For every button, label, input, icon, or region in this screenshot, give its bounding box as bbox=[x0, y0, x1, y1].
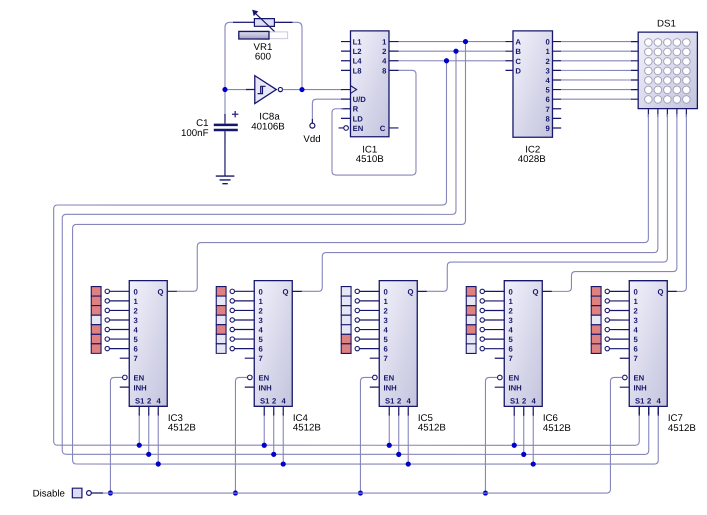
lead: DS1 row 6 stub bbox=[631, 98, 638, 100]
svg-text:0: 0 bbox=[133, 287, 137, 296]
svg-text:9: 9 bbox=[546, 124, 550, 133]
svg-text:7: 7 bbox=[508, 354, 512, 363]
variable resistor VR1 (pot with arrow and slider bar) bbox=[239, 10, 288, 39]
node: junction net B bbox=[453, 49, 458, 54]
svg-text:Q: Q bbox=[157, 287, 163, 296]
wire: IC4.Q to DS1 column 2 bbox=[301, 114, 658, 291]
svg-text:5: 5 bbox=[383, 335, 388, 344]
svg-text:INH: INH bbox=[633, 383, 647, 392]
svg-text:EN: EN bbox=[258, 374, 269, 383]
svg-text:EN: EN bbox=[508, 374, 519, 383]
svg-text:5: 5 bbox=[133, 335, 138, 344]
lead: DS1 row 4 stub bbox=[631, 79, 638, 81]
svg-text:4: 4 bbox=[633, 326, 638, 335]
svg-text:2: 2 bbox=[522, 396, 526, 405]
node: IC6 EN junction bbox=[483, 490, 488, 495]
svg-text:3: 3 bbox=[383, 316, 387, 325]
svg-text:7: 7 bbox=[546, 105, 550, 114]
wire: IC6.EN to disable net bbox=[485, 377, 497, 493]
svg-text:Q: Q bbox=[532, 287, 538, 296]
svg-text:4: 4 bbox=[383, 326, 388, 335]
multiplexer IC4 4512B bbox=[230, 281, 302, 416]
svg-text:S1: S1 bbox=[135, 396, 145, 405]
multiplexer IC7 4512B bbox=[605, 281, 677, 416]
wire: net B to S2 bus bbox=[62, 51, 649, 454]
wire: node to schmitt trigger input bbox=[225, 89, 249, 91]
node: schmitt input junction bbox=[222, 87, 227, 92]
svg-text:5: 5 bbox=[633, 335, 638, 344]
svg-text:2: 2 bbox=[258, 306, 262, 315]
multiplexer IC3 4512B bbox=[105, 281, 177, 416]
switch: Disable input bbox=[72, 488, 82, 498]
svg-text:INH: INH bbox=[383, 383, 397, 392]
svg-text:2: 2 bbox=[508, 306, 512, 315]
svg-text:2: 2 bbox=[383, 306, 387, 315]
svg-text:U/D: U/D bbox=[353, 95, 367, 104]
svg-text:6: 6 bbox=[508, 345, 512, 354]
svg-text:100nF: 100nF bbox=[181, 128, 209, 139]
svg-text:DS1: DS1 bbox=[657, 18, 676, 29]
wire: IC2.5 to DS1 row 5 bbox=[561, 89, 632, 91]
svg-text:6: 6 bbox=[546, 95, 550, 104]
svg-text:EN: EN bbox=[383, 374, 394, 383]
wire: IC5.S1 to select bus bbox=[388, 414, 390, 445]
svg-text:2: 2 bbox=[546, 57, 550, 66]
svg-text:4: 4 bbox=[156, 396, 161, 405]
node: junction net A bbox=[463, 39, 468, 44]
lead: IC7 S2 stub bbox=[648, 406, 650, 414]
logic level switches for IC3 inputs bbox=[91, 287, 101, 354]
svg-text:LD: LD bbox=[353, 114, 364, 123]
lead: DS1 row 5 stub bbox=[631, 89, 638, 91]
logic level switches for IC7 inputs bbox=[591, 287, 601, 354]
svg-text:4512B: 4512B bbox=[668, 423, 696, 434]
node: IC3 S2 junction bbox=[146, 452, 151, 457]
node: IC5 S2 junction bbox=[396, 452, 401, 457]
wire: schmitt output to IC1 clock pin bbox=[283, 89, 343, 91]
svg-text:0: 0 bbox=[546, 38, 550, 47]
svg-text:4: 4 bbox=[546, 76, 551, 85]
svg-text:L8: L8 bbox=[353, 66, 363, 75]
svg-text:6: 6 bbox=[383, 345, 387, 354]
lead: DS1 row 1 stub bbox=[631, 50, 638, 52]
svg-text:EN: EN bbox=[133, 374, 144, 383]
multiplexer IC6 4512B bbox=[480, 281, 552, 416]
node: IC4 S4 junction bbox=[281, 461, 286, 466]
svg-text:8: 8 bbox=[546, 114, 551, 123]
wire: IC2.0 to DS1 row 0 bbox=[561, 41, 632, 43]
wire: node to capacitor C1 top plate bbox=[224, 90, 226, 118]
svg-text:S1: S1 bbox=[635, 396, 645, 405]
svg-text:1: 1 bbox=[546, 47, 551, 56]
svg-text:4: 4 bbox=[281, 396, 286, 405]
ground symbol bbox=[216, 176, 235, 184]
svg-text:0: 0 bbox=[508, 287, 512, 296]
svg-text:4510B: 4510B bbox=[356, 154, 384, 165]
svg-text:4: 4 bbox=[258, 326, 263, 335]
wire: VR1 feedback loop from schmitt input node over top to output node bbox=[225, 22, 302, 89]
node: IC6 S4 junction bbox=[531, 461, 536, 466]
svg-text:8: 8 bbox=[382, 66, 387, 75]
node: IC3 S1 junction bbox=[137, 443, 142, 448]
svg-text:EN: EN bbox=[633, 374, 644, 383]
IC2 4028B BCD decoder bbox=[505, 31, 561, 137]
node: IC5 S4 junction bbox=[406, 461, 411, 466]
wire: IC5.Q to DS1 column 3 bbox=[426, 114, 667, 291]
svg-text:A: A bbox=[515, 38, 521, 47]
svg-text:2: 2 bbox=[133, 306, 137, 315]
node: junction net C bbox=[444, 58, 449, 63]
svg-text:1: 1 bbox=[383, 297, 388, 306]
svg-text:4: 4 bbox=[531, 396, 536, 405]
wire: IC4.EN to disable net bbox=[235, 377, 247, 493]
wire: IC1.2 to IC2.B bbox=[398, 50, 505, 52]
wire: net A to S4 bus bbox=[73, 42, 659, 465]
svg-text:7: 7 bbox=[133, 354, 137, 363]
wire: net C to S1 bus bbox=[54, 61, 640, 446]
wire: IC3.S2 to select bus bbox=[148, 414, 150, 454]
node: IC6 S1 junction bbox=[512, 443, 517, 448]
wire: Vdd to IC1 U/D pin bbox=[312, 99, 341, 120]
svg-text:4512B: 4512B bbox=[168, 423, 196, 434]
svg-text:4: 4 bbox=[133, 326, 138, 335]
svg-text:3: 3 bbox=[508, 316, 512, 325]
wire: IC2.1 to DS1 row 1 bbox=[561, 50, 632, 52]
svg-text:4512B: 4512B bbox=[418, 423, 446, 434]
svg-text:R: R bbox=[353, 105, 359, 114]
wire: VR1 lead segment (dark) on top run bbox=[233, 21, 293, 23]
svg-text:INH: INH bbox=[508, 383, 522, 392]
wire: IC1.1 to IC2.A bbox=[398, 41, 505, 43]
wire: IC3.EN to disable net bbox=[110, 377, 122, 493]
svg-text:L1: L1 bbox=[353, 38, 363, 47]
svg-text:0: 0 bbox=[633, 287, 637, 296]
multiplexer IC5 4512B bbox=[355, 281, 427, 416]
svg-text:7: 7 bbox=[258, 354, 262, 363]
node: IC4 S1 junction bbox=[262, 443, 267, 448]
wire: IC1.8 loop to IC1.R reset bbox=[332, 70, 416, 175]
logic level switches for IC6 inputs bbox=[466, 287, 476, 354]
svg-text:4: 4 bbox=[508, 326, 513, 335]
svg-text:5: 5 bbox=[258, 335, 263, 344]
svg-text:40106B: 40106B bbox=[251, 121, 284, 132]
svg-text:5: 5 bbox=[508, 335, 513, 344]
node: IC4 EN junction bbox=[233, 490, 238, 495]
wire: IC6.S1 to select bus bbox=[513, 414, 515, 445]
svg-text:2: 2 bbox=[633, 306, 637, 315]
wire: IC2.4 to DS1 row 4 bbox=[561, 79, 632, 81]
wire: IC6.S2 to select bus bbox=[523, 414, 525, 454]
lead: IC1 clock stub bbox=[341, 89, 351, 91]
svg-text:3: 3 bbox=[546, 66, 550, 75]
svg-text:1: 1 bbox=[508, 297, 513, 306]
svg-text:S1: S1 bbox=[385, 396, 395, 405]
lead: DS1 row 2 stub bbox=[631, 60, 638, 62]
lead: C1 top lead bbox=[224, 114, 226, 124]
lead: DS1 row 0 stub bbox=[631, 41, 638, 43]
lead: IC7 S4 stub bbox=[657, 406, 659, 414]
svg-text:1: 1 bbox=[633, 297, 638, 306]
wire: IC5.S2 to select bus bbox=[398, 414, 400, 454]
svg-text:600: 600 bbox=[255, 52, 272, 63]
power Vdd terminal bbox=[310, 123, 315, 128]
svg-text:Q: Q bbox=[282, 287, 288, 296]
node: IC6 S2 junction bbox=[521, 452, 526, 457]
node: IC5 S1 junction bbox=[387, 443, 392, 448]
wire: IC7.Q to DS1 column 5 bbox=[676, 114, 686, 291]
svg-text:7: 7 bbox=[383, 354, 387, 363]
lead: IC7 S1 stub bbox=[638, 406, 640, 414]
svg-text:1: 1 bbox=[133, 297, 138, 306]
svg-text:L2: L2 bbox=[353, 47, 362, 56]
lead: DS1 row 3 stub bbox=[631, 69, 638, 71]
svg-text:1: 1 bbox=[258, 297, 263, 306]
lead: schmitt input stub bbox=[246, 89, 255, 91]
svg-text:2: 2 bbox=[272, 396, 276, 405]
svg-text:4: 4 bbox=[656, 396, 661, 405]
node: IC3 EN junction bbox=[108, 490, 113, 495]
wire: IC4.S1 to select bus bbox=[263, 414, 265, 445]
wire: IC3.S1 to select bus bbox=[138, 414, 140, 445]
wire: IC6.Q to DS1 column 4 bbox=[551, 114, 677, 291]
wire: IC5.EN to disable net bbox=[360, 377, 372, 493]
wire: IC3.S4 to select bus bbox=[157, 414, 159, 464]
svg-text:5: 5 bbox=[546, 86, 551, 95]
svg-text:2: 2 bbox=[147, 396, 151, 405]
svg-text:EN: EN bbox=[353, 124, 364, 133]
svg-text:Q: Q bbox=[407, 287, 413, 296]
svg-text:2: 2 bbox=[397, 396, 401, 405]
svg-text:C: C bbox=[515, 57, 521, 66]
svg-text:4028B: 4028B bbox=[518, 154, 546, 165]
wire: IC2.6 to DS1 row 6 bbox=[561, 98, 632, 100]
node: IC4 S2 junction bbox=[271, 452, 276, 457]
svg-text:D: D bbox=[515, 66, 521, 75]
wire: IC2.2 to DS1 row 2 bbox=[561, 60, 632, 62]
svg-text:4512B: 4512B bbox=[293, 423, 321, 434]
svg-text:4: 4 bbox=[382, 57, 387, 66]
svg-text:4: 4 bbox=[406, 396, 411, 405]
lead: IC1 U/D stub bbox=[341, 98, 351, 100]
svg-text:Disable: Disable bbox=[33, 489, 65, 500]
svg-text:2: 2 bbox=[382, 47, 386, 56]
node: schmitt output junction bbox=[299, 87, 304, 92]
svg-text:4512B: 4512B bbox=[543, 423, 571, 434]
logic level switches for IC4 inputs bbox=[216, 287, 226, 354]
svg-text:0: 0 bbox=[258, 287, 262, 296]
svg-text:S1: S1 bbox=[260, 396, 270, 405]
IC1 4510B up/down counter bbox=[339, 31, 399, 137]
svg-text:INH: INH bbox=[258, 383, 272, 392]
svg-text:6: 6 bbox=[133, 345, 137, 354]
wire: IC4.S2 to select bus bbox=[273, 414, 275, 454]
lead: disable switch lead bbox=[91, 492, 103, 494]
svg-text:2: 2 bbox=[647, 396, 651, 405]
svg-text:3: 3 bbox=[633, 316, 637, 325]
node: IC5 EN junction bbox=[358, 490, 363, 495]
wire: IC6.S4 to select bus bbox=[532, 414, 534, 464]
svg-text:1: 1 bbox=[382, 38, 387, 47]
svg-text:7: 7 bbox=[633, 354, 637, 363]
wire: IC3.Q to DS1 column 1 bbox=[176, 114, 648, 291]
svg-text:3: 3 bbox=[258, 316, 262, 325]
svg-text:S1: S1 bbox=[510, 396, 520, 405]
svg-text:6: 6 bbox=[258, 345, 262, 354]
wire: IC2.3 to DS1 row 3 bbox=[561, 69, 632, 71]
svg-text:C: C bbox=[380, 124, 386, 133]
wire: disable net to IC7.EN bbox=[100, 377, 622, 493]
svg-text:B: B bbox=[515, 47, 521, 56]
svg-text:3: 3 bbox=[133, 316, 137, 325]
display DS1 5x7 LED dot matrix bbox=[638, 32, 697, 117]
node: IC3 S4 junction bbox=[156, 461, 161, 466]
svg-text:L4: L4 bbox=[353, 57, 363, 66]
svg-text:INH: INH bbox=[133, 383, 147, 392]
svg-text:6: 6 bbox=[633, 345, 637, 354]
op-amp IC8a schmitt trigger inverter bbox=[255, 76, 283, 104]
logic level switches for IC5 inputs bbox=[341, 287, 351, 354]
svg-text:Q: Q bbox=[657, 287, 663, 296]
wire: IC4.S4 to select bus bbox=[282, 414, 284, 464]
capacitor C1 (polarized, with + sign) bbox=[214, 111, 239, 131]
svg-text:Vdd: Vdd bbox=[303, 134, 320, 145]
wire: IC5.S4 to select bus bbox=[407, 414, 409, 464]
svg-text:0: 0 bbox=[383, 287, 387, 296]
wire: IC1.4 to IC2.C bbox=[398, 60, 505, 62]
lead: C1 bottom lead to ground bbox=[224, 131, 226, 176]
